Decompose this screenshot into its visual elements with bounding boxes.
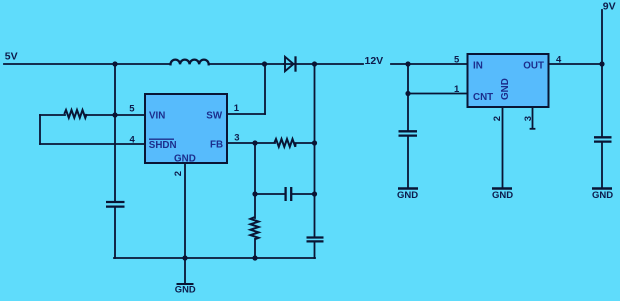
wire IC2 GND pin 2 — [502, 107, 504, 188]
node ground rail / IC1 GND junction — [182, 255, 187, 260]
svg-text:IN: IN — [473, 61, 483, 72]
wire CNT riser — [407, 64, 409, 94]
wire ground stub center — [184, 258, 186, 283]
wire C2 right lead — [292, 193, 315, 195]
svg-text:12V: 12V — [365, 55, 384, 67]
svg-text:FB: FB — [210, 140, 223, 151]
resistor R3 — [250, 217, 258, 239]
wire rail inductor to diode — [209, 63, 283, 65]
wire C2 left lead — [255, 193, 285, 195]
wire C1 bottom to ground rail — [114, 208, 116, 259]
node 12V / CNT riser junction — [405, 61, 410, 66]
capacitor C2 — [286, 187, 292, 201]
node 5V rail / riser junction — [112, 61, 117, 66]
wire SHDN pin 4 — [40, 143, 145, 145]
svg-text:4: 4 — [130, 134, 136, 145]
wire R2 left lead — [255, 142, 275, 144]
wire R2 right lead to node B — [295, 142, 315, 144]
svg-text:CNT: CNT — [473, 92, 493, 103]
node rail / node B junction — [312, 61, 317, 66]
wire C3 bottom to ground rail — [314, 243, 316, 259]
svg-text:1: 1 — [234, 103, 240, 114]
svg-text:OUT: OUT — [523, 61, 544, 72]
svg-text:5V: 5V — [5, 50, 18, 62]
op-amp U2 (regulator IC2) — [468, 54, 549, 107]
svg-text:SW: SW — [206, 111, 223, 122]
svg-text:GND: GND — [492, 190, 513, 201]
wire C5 bottom to ground — [601, 143, 603, 188]
wire left loop vertical — [39, 115, 41, 144]
ground (IC2 pin 2) — [492, 189, 513, 202]
svg-text:4: 4 — [556, 55, 562, 66]
wire CNT node down to C4 — [407, 94, 409, 131]
diode D1 — [283, 56, 296, 71]
resistor R2 — [274, 139, 295, 147]
node ground rail / R3 junction — [252, 255, 257, 260]
wire SW riser to rail — [264, 64, 266, 114]
wire VIN node down to C1 — [114, 115, 116, 201]
wire C4 bottom to ground — [407, 137, 409, 188]
node B FB junction — [312, 140, 317, 145]
ground (center, IC1) — [175, 284, 196, 295]
svg-text:2: 2 — [173, 171, 184, 176]
svg-text:3: 3 — [523, 116, 534, 121]
node rail / SW riser junction — [262, 61, 267, 66]
wire 5V rail left — [4, 63, 170, 65]
wire 9V rail vertical — [601, 10, 603, 136]
svg-text:1: 1 — [454, 84, 460, 95]
svg-text:5: 5 — [129, 104, 135, 115]
op-amp U1 (regulator IC1) — [145, 94, 227, 165]
wire 5V riser to VIN node — [114, 64, 116, 115]
wire 12V label to IC2 IN — [391, 63, 467, 65]
svg-text:9V: 9V — [603, 1, 616, 13]
svg-text:GND: GND — [174, 154, 196, 165]
wire CNT pin 1 — [408, 93, 467, 95]
wire IC1 GND pin 2 — [184, 163, 186, 258]
wire OUT pin 4 — [548, 63, 602, 65]
capacitor C3 — [307, 238, 324, 242]
svg-text:GND: GND — [175, 284, 196, 295]
capacitor C5 — [594, 137, 612, 141]
svg-text:GND: GND — [397, 190, 418, 201]
wire ground rail bottom — [114, 257, 315, 259]
ground (C4) — [397, 189, 418, 202]
wire R3 bottom lead — [254, 239, 256, 258]
wire pin 3 tick — [531, 128, 535, 130]
resistor R1 — [64, 110, 86, 118]
node B / C2 junction — [312, 191, 317, 196]
node CNT junction — [405, 91, 410, 96]
wire node A to R3 top — [254, 194, 256, 218]
node OUT / 9V junction — [599, 61, 604, 66]
wire VIN node to pin 5 — [115, 114, 145, 116]
wire diode cathode to 12V — [296, 63, 363, 65]
node VIN junction — [112, 112, 117, 117]
wire R1 right lead to VIN node — [86, 114, 115, 116]
ground (9V cap) — [592, 189, 613, 202]
wire IC2 pin 3 stub — [532, 107, 534, 128]
node A / C2 junction — [252, 191, 257, 196]
svg-text:GND: GND — [592, 190, 613, 201]
capacitor C1 — [106, 202, 125, 207]
svg-text:VIN: VIN — [149, 111, 165, 122]
svg-text:5: 5 — [454, 55, 460, 66]
wire node B riser from rail — [314, 64, 316, 143]
wire SW pin 1 horizontal — [227, 113, 265, 115]
wire R1 left lead — [40, 114, 65, 116]
node A FB junction — [252, 140, 257, 145]
svg-text:SHDN: SHDN — [149, 140, 177, 151]
wire node B down to C3 — [314, 143, 316, 237]
svg-text:2: 2 — [492, 116, 503, 121]
wire node A down to C2 — [254, 143, 256, 194]
inductor L1 — [171, 60, 209, 65]
svg-text:GND: GND — [500, 78, 511, 100]
capacitor C4 — [399, 131, 418, 135]
wire FB pin 3 to node A — [227, 142, 255, 144]
svg-text:3: 3 — [234, 133, 239, 144]
